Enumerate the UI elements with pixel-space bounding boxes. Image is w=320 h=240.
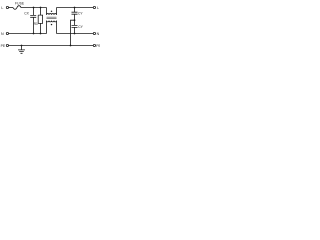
node junction N x=33 — [33, 33, 35, 35]
node N terminal (right) — [93, 32, 95, 34]
transformer/common-mode choke L1 — [47, 8, 57, 34]
node junction PE x=21 — [21, 45, 23, 47]
wire N rail right segment — [57, 33, 94, 35]
fuse F1 — [13, 6, 22, 10]
capacitor CY upper (Y-cap) — [72, 8, 78, 21]
svg-text:CX: CX — [24, 12, 29, 16]
wire choke to L output (top rail) — [57, 7, 94, 9]
svg-text:L: L — [1, 6, 3, 10]
svg-text:CY: CY — [78, 25, 83, 29]
node junction top x=74 — [74, 7, 76, 9]
wire fuse to choke (top rail L) — [22, 7, 47, 9]
svg-text:N: N — [1, 32, 4, 36]
svg-text:PE: PE — [96, 44, 100, 48]
node junction top x=33 — [33, 7, 35, 9]
svg-text:FUSE: FUSE — [15, 2, 25, 6]
node L terminal (left) — [6, 6, 8, 8]
capacitor CX (X-cap) — [30, 8, 36, 34]
node Y-cap midpoint — [74, 19, 76, 21]
node junction N x=40 — [40, 33, 42, 35]
node PE terminal (right) — [93, 44, 95, 46]
wire midpoint to earth drop — [71, 20, 75, 45]
ground — [18, 46, 25, 54]
svg-text:N: N — [97, 32, 100, 36]
node junction PE x=70 — [70, 45, 72, 47]
node PE terminal (left) — [6, 44, 8, 46]
node junction N x=74 — [74, 33, 76, 35]
svg-text:L: L — [97, 6, 99, 10]
wire L terminal to fuse — [9, 7, 14, 9]
wire PE rail — [9, 45, 94, 47]
node L terminal (right) — [93, 6, 95, 8]
svg-text:PE: PE — [1, 44, 6, 48]
resistor R1 (bleeder) — [38, 8, 42, 34]
svg-text:R1: R1 — [34, 22, 38, 26]
node N terminal (left) — [6, 32, 8, 34]
node junction top x=40 — [40, 7, 42, 9]
capacitor CY lower (Y-cap) — [72, 20, 78, 33]
svg-text:CY: CY — [78, 12, 83, 16]
wire N rail left segment — [9, 33, 47, 35]
